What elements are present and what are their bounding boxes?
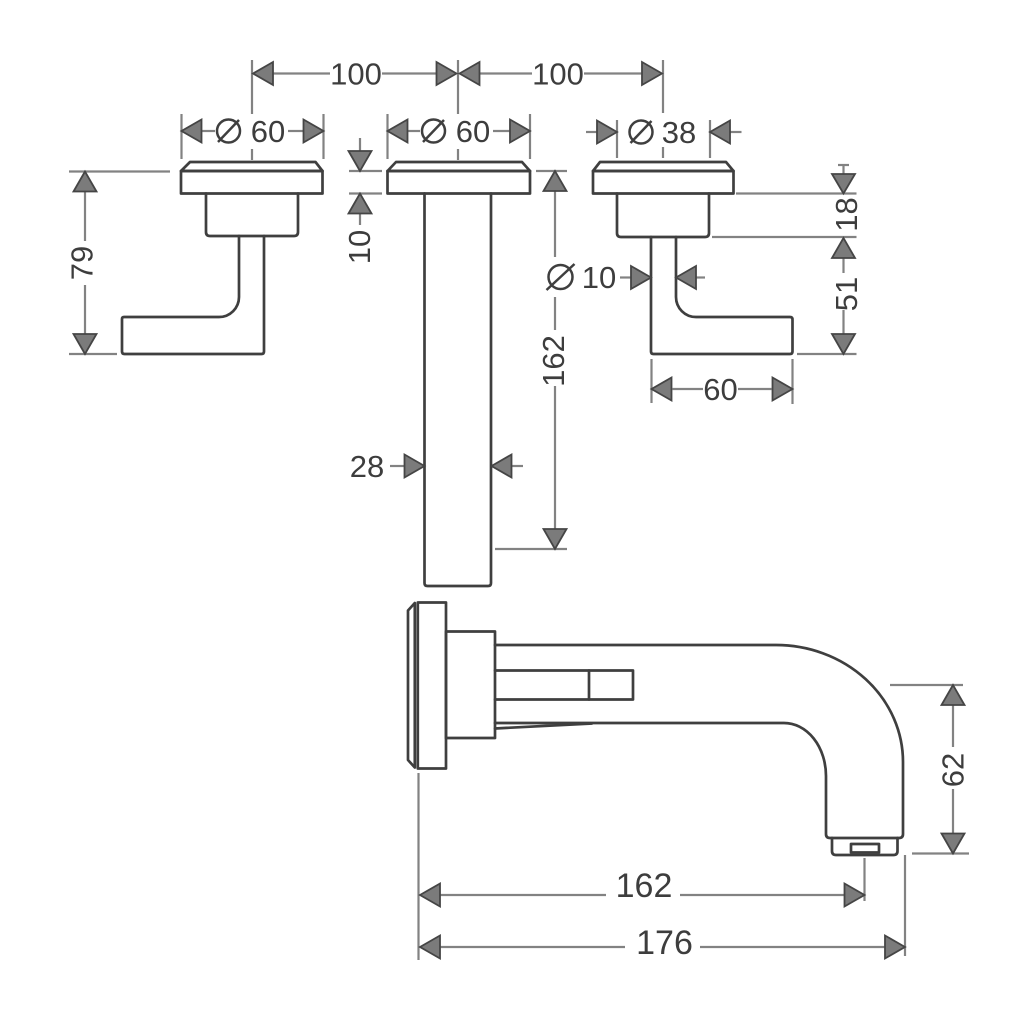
svg-text:38: 38 bbox=[662, 115, 696, 150]
svg-text:10: 10 bbox=[342, 230, 377, 264]
svg-text:62: 62 bbox=[936, 753, 971, 787]
svg-text:100: 100 bbox=[330, 57, 382, 92]
svg-text:51: 51 bbox=[829, 277, 864, 311]
svg-text:18: 18 bbox=[829, 197, 864, 231]
svg-text:60: 60 bbox=[456, 114, 490, 149]
svg-text:79: 79 bbox=[65, 246, 100, 280]
svg-text:176: 176 bbox=[636, 924, 693, 962]
svg-text:60: 60 bbox=[251, 114, 285, 149]
svg-text:162: 162 bbox=[536, 335, 571, 387]
svg-text:60: 60 bbox=[703, 372, 737, 407]
svg-text:28: 28 bbox=[350, 449, 384, 484]
svg-text:100: 100 bbox=[532, 57, 584, 92]
svg-text:162: 162 bbox=[616, 867, 673, 905]
svg-text:10: 10 bbox=[582, 260, 616, 295]
